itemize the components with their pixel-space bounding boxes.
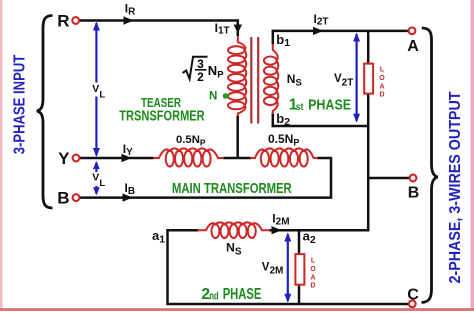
wire load1 top branch bbox=[367, 31, 370, 65]
wire b2 riser bbox=[272, 113, 275, 127]
wire right vertical b2-line to a-line bbox=[367, 126, 370, 231]
svg-text:O: O bbox=[310, 266, 316, 273]
svg-text:3: 3 bbox=[197, 57, 204, 71]
wire B line bbox=[80, 196, 332, 199]
transformer T1 core bbox=[250, 37, 252, 124]
node N neutral dot bbox=[223, 93, 229, 99]
wire a-line coil exit to right vertical bbox=[269, 229, 369, 232]
svg-text:L: L bbox=[380, 67, 385, 74]
wire R line to teaser top bbox=[79, 21, 238, 37]
svg-text:PHASE: PHASE bbox=[223, 286, 262, 303]
svg-text:3-PHASE INPUT: 3-PHASE INPUT bbox=[12, 55, 29, 155]
svg-text:R: R bbox=[57, 11, 69, 30]
svg-text:B: B bbox=[57, 189, 69, 208]
wire 2nd phase bottom line to C bbox=[166, 303, 408, 306]
wire a1 top lead bbox=[168, 230, 199, 304]
wire between main coils (centre-tap segment) bbox=[223, 157, 251, 160]
main transformer primary coil 0.5Np (right) bbox=[250, 148, 318, 158]
wire load2 bottom bbox=[298, 283, 301, 305]
terminal Y bbox=[73, 155, 80, 162]
svg-text:PHASE: PHASE bbox=[308, 97, 351, 113]
svg-text:C: C bbox=[407, 287, 419, 304]
current arrow I_1T bbox=[234, 25, 242, 34]
svg-text:2-PHASE, 3-WIRES OUTPUT: 2-PHASE, 3-WIRES OUTPUT bbox=[447, 91, 464, 283]
svg-text:N: N bbox=[209, 91, 217, 103]
main transformer secondary winding Ns bbox=[198, 222, 271, 230]
current arrow I_B bbox=[123, 193, 133, 201]
current arrow I_2T bbox=[313, 27, 323, 35]
load resistor 1st phase bbox=[364, 64, 373, 94]
terminal B input bbox=[73, 194, 80, 201]
transformer T1 secondary winding Ns bbox=[273, 44, 279, 114]
brace left (3-phase input) bbox=[37, 16, 53, 209]
brace right (2-phase output) bbox=[422, 28, 438, 303]
current arrow I_Y bbox=[122, 154, 132, 162]
current arrow I_R bbox=[124, 16, 134, 24]
svg-text:TRSNSFORMER: TRSNSFORMER bbox=[119, 109, 205, 125]
svg-text:A: A bbox=[379, 83, 384, 90]
svg-text:st: st bbox=[296, 101, 304, 113]
wire b1 riser bbox=[272, 30, 275, 44]
svg-text:O: O bbox=[379, 75, 385, 82]
wire Y line lead bbox=[80, 157, 154, 160]
svg-text:MAIN TRANSFORMER: MAIN TRANSFORMER bbox=[172, 180, 292, 197]
svg-text:A: A bbox=[310, 274, 315, 281]
terminal B output bbox=[410, 175, 417, 182]
svg-text:Y: Y bbox=[58, 149, 70, 168]
voltage arrow V_2T bbox=[356, 34, 358, 121]
wire b2 bottom line bbox=[272, 125, 370, 128]
wire a2 branch down to load2 bbox=[298, 230, 301, 254]
transformer T1 teaser primary winding sqrt(3)/2 Np bbox=[238, 36, 247, 116]
wire main coil2 right end down to B line bbox=[317, 158, 331, 198]
load resistor 2nd phase bbox=[295, 254, 304, 285]
voltage arrow V_L (R-Y) bbox=[95, 23, 97, 83]
terminal A bbox=[409, 27, 416, 34]
svg-text:D: D bbox=[379, 92, 384, 99]
svg-text:nd: nd bbox=[209, 291, 219, 303]
terminal C bbox=[409, 300, 416, 307]
voltage arrow V_2M bbox=[287, 234, 289, 301]
wire to B output terminal bbox=[368, 177, 409, 180]
svg-text:D: D bbox=[310, 283, 315, 290]
wire 1st-phase top line to A bbox=[272, 30, 409, 33]
wire load1 bottom to b2 line bbox=[367, 93, 370, 126]
voltage arrow V_L (Y-B) bbox=[95, 163, 97, 173]
svg-text:L: L bbox=[311, 258, 316, 265]
svg-text:2: 2 bbox=[197, 70, 204, 84]
label sqrt(3/2) Np bbox=[183, 57, 225, 84]
terminal R bbox=[72, 17, 79, 24]
svg-text:B: B bbox=[408, 185, 420, 202]
main transformer primary coil 0.5Np (left) bbox=[153, 148, 224, 158]
wire teaser centre tap bbox=[236, 116, 239, 158]
svg-text:A: A bbox=[407, 38, 419, 55]
current arrow I_2M bbox=[272, 226, 282, 234]
